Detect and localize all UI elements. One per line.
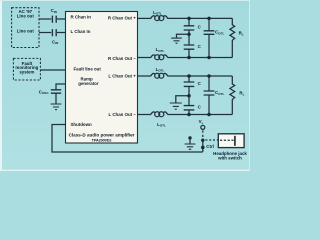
node L+ / COTL	[207, 74, 211, 78]
capacitor COTL (R)	[208, 18, 210, 57]
wire IC ramp generator to COSC	[56, 84, 66, 90]
capacitor COTL (L)	[208, 76, 210, 115]
svg-text:R Chan Out +: R Chan Out +	[108, 15, 136, 20]
node jack ground	[188, 136, 191, 139]
capacitor C (R upper)	[184, 26, 195, 30]
svg-text:RL: RL	[239, 91, 244, 97]
capacitor C (L upper)	[184, 82, 195, 86]
dashed control line to headphone jack	[205, 139, 218, 141]
wire L- rail	[168, 114, 233, 116]
ground (R filter)	[171, 38, 182, 43]
wire control node to shutdown run	[202, 140, 204, 152]
ground (headphone sense)	[189, 140, 191, 144]
wire R Chan Out +	[138, 17, 152, 19]
svg-text:L Chan Out +: L Chan Out +	[108, 74, 136, 79]
wire L filter midpoint to ground	[176, 96, 189, 103]
svg-text:Shutdown: Shutdown	[71, 122, 93, 127]
svg-text:generator: generator	[78, 81, 99, 86]
wire L line out to CIN	[39, 32, 51, 34]
wire L+ rail	[168, 75, 233, 77]
AC 97 line out source box	[12, 8, 39, 48]
svg-text:LOTL: LOTL	[156, 47, 165, 53]
dashed link Vs to control node	[202, 130, 204, 139]
headphone jack box with switch	[218, 134, 244, 148]
inductor LOTL (L+)	[151, 73, 168, 76]
capacitor COSC	[51, 90, 61, 93]
svg-text:Class-D audio power amplifier: Class-D audio power amplifier	[69, 133, 135, 138]
node L- / C	[187, 113, 191, 117]
node L- / COTL	[207, 113, 211, 117]
ground (L filter)	[170, 103, 182, 109]
node control corner	[201, 146, 205, 150]
svg-text:CIN: CIN	[51, 8, 58, 14]
svg-text:LOTL: LOTL	[153, 10, 162, 16]
node L+ / C	[187, 74, 191, 78]
wire L filter series caps	[188, 76, 190, 115]
ground below COSC	[51, 104, 62, 110]
svg-text:L Chan Out –: L Chan Out –	[109, 112, 137, 117]
fault monitoring system box	[13, 58, 40, 80]
node R+ / COTL	[207, 17, 211, 21]
svg-text:CIN: CIN	[52, 39, 59, 45]
svg-text:LOTL: LOTL	[156, 67, 165, 73]
svg-text:Line out: Line out	[17, 28, 35, 33]
wire R- rail	[168, 57, 233, 59]
svg-text:Ctrl: Ctrl	[206, 144, 214, 149]
svg-text:Line out: Line out	[17, 14, 35, 19]
node R- / COTL	[207, 56, 211, 60]
capacitor C (L lower)	[184, 106, 195, 110]
wire R+ rail	[168, 17, 233, 19]
op-amp U1 TPA2000D2 amplifier block	[66, 12, 138, 144]
node control	[201, 139, 204, 142]
wire shutdown to headphone control	[52, 125, 203, 153]
Vs supply terminal	[201, 125, 205, 129]
svg-text:R Chan In: R Chan In	[71, 15, 92, 20]
wire CIN to IC L Chan In	[57, 32, 66, 34]
svg-text:LOTL: LOTL	[157, 122, 166, 128]
wire L Chan Out -	[138, 114, 152, 116]
node R+ / C	[187, 17, 191, 21]
wire L Chan Out +	[138, 75, 152, 77]
node R- / C	[187, 56, 191, 60]
svg-text:COTL: COTL	[215, 30, 224, 36]
svg-text:Fault line out: Fault line out	[74, 66, 102, 71]
svg-text:with switch: with switch	[217, 156, 242, 161]
junction dots	[187, 17, 211, 150]
svg-text:L Chan In: L Chan In	[71, 29, 91, 34]
svg-text:COSC: COSC	[39, 89, 50, 95]
svg-text:COTL: COTL	[215, 90, 224, 96]
wire CIN to IC R Chan In	[57, 18, 66, 20]
capacitor CIN (R channel)	[52, 16, 56, 23]
inductor LOTL (L-)	[151, 112, 168, 115]
inductor LOTL (R+)	[151, 16, 168, 19]
capacitor CIN (L channel)	[52, 29, 56, 36]
node L mid	[187, 94, 191, 98]
svg-text:system: system	[19, 70, 34, 75]
svg-text:RL: RL	[239, 31, 244, 37]
svg-text:TPA2000D2: TPA2000D2	[92, 138, 112, 142]
wire R Chan Out -	[138, 57, 152, 59]
inductor LOTL (R-)	[151, 55, 168, 58]
resistor RL (L channel)	[230, 76, 235, 115]
wire COSC to ground	[55, 93, 57, 104]
wire R line out to CIN	[39, 18, 51, 20]
capacitor C (R lower)	[184, 45, 195, 49]
wire R filter midpoint to ground	[177, 34, 190, 38]
wire fault box to IC fault line out	[40, 69, 65, 71]
node R mid	[187, 32, 191, 36]
resistor RL (R channel)	[230, 18, 235, 57]
svg-text:R Chan Out –: R Chan Out –	[108, 56, 136, 61]
wire R filter series caps	[188, 18, 190, 57]
svg-text:Vs: Vs	[199, 119, 204, 125]
